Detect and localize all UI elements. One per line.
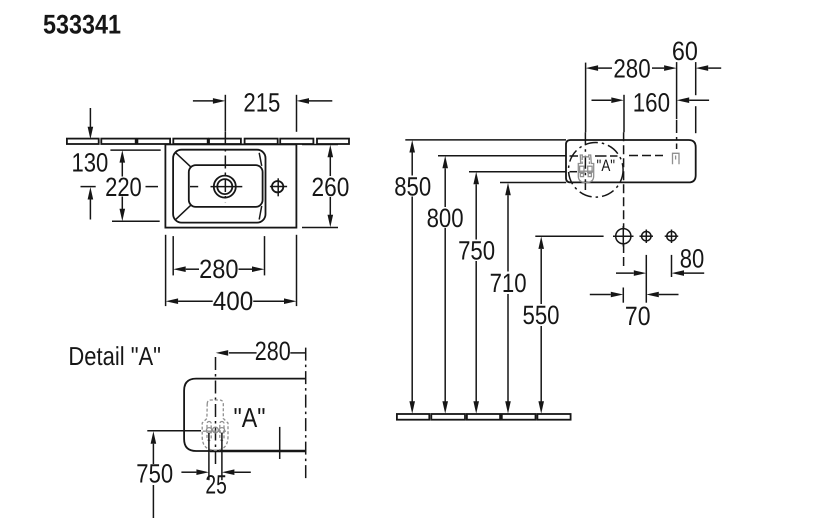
corner diagonal TL <box>175 152 192 168</box>
svg-text:750: 750 <box>136 459 173 489</box>
dim 160 <box>592 99 612 101</box>
faucet hole outer circle <box>214 176 236 198</box>
svg-text:25: 25 <box>205 469 226 499</box>
dim 215 <box>296 95 298 132</box>
dim 60 <box>708 67 721 69</box>
dim 220 <box>110 149 160 151</box>
svg-text:"A": "A" <box>234 402 266 433</box>
ref line 550 <box>535 235 603 237</box>
dim 260 <box>302 144 338 146</box>
svg-text:280: 280 <box>255 336 291 366</box>
dim 130 arrows <box>89 108 91 130</box>
ref line 800 <box>438 155 566 157</box>
drain centerline right view <box>584 132 586 190</box>
basin horizontal centerline <box>570 155 579 157</box>
ext line B <box>623 95 625 133</box>
ext line A <box>585 63 587 133</box>
dim 280 right <box>598 67 612 69</box>
dim line 550 <box>538 236 544 249</box>
svg-text:850: 850 <box>394 171 431 201</box>
basin rim rounded rect <box>173 150 265 223</box>
750 ref dash inside basin <box>570 171 578 173</box>
svg-text:160: 160 <box>633 88 670 118</box>
svg-text:220: 220 <box>105 172 142 202</box>
svg-text:Detail "A": Detail "A" <box>68 341 161 371</box>
ref line 710 <box>500 182 566 184</box>
wall bracket (gray) <box>673 153 680 164</box>
detail bottom thick line <box>210 450 306 453</box>
basin bottom rounded rect <box>189 165 263 207</box>
svg-text:215: 215 <box>243 88 280 118</box>
basin outer rect (plan) <box>165 144 296 227</box>
detail basin outline <box>184 379 306 451</box>
dim 25 <box>208 461 210 480</box>
svg-text:80: 80 <box>680 243 705 273</box>
dim 280 detail <box>229 352 257 354</box>
svg-text:750: 750 <box>458 236 495 266</box>
dim line 710 <box>505 183 511 196</box>
corner diagonal TR <box>259 153 262 166</box>
dim 400 <box>165 235 167 306</box>
svg-text:280: 280 <box>613 54 650 84</box>
svg-text:280: 280 <box>199 254 238 284</box>
detail drain centerline dash-dot <box>215 357 217 467</box>
mounting holes <box>616 229 631 244</box>
svg-text:400: 400 <box>213 286 254 316</box>
dim 280 top view <box>172 236 174 275</box>
ref line 850 <box>405 139 566 141</box>
small hole crosshair <box>270 186 287 188</box>
corner diagonal BR <box>259 206 262 220</box>
ext line C <box>676 62 678 119</box>
detail basin centerline dash-dot <box>305 348 307 482</box>
bracket centerline <box>676 120 678 149</box>
svg-text:800: 800 <box>427 203 464 233</box>
detail bolt lines <box>208 433 210 461</box>
detail circle A <box>569 143 624 198</box>
drain fitting right view (gray) <box>578 155 594 183</box>
svg-text:130: 130 <box>72 147 109 177</box>
dim 750 detail <box>147 430 201 432</box>
svg-text:60: 60 <box>672 36 698 66</box>
ref line 750 <box>469 171 566 173</box>
detail cut tick <box>279 427 281 459</box>
svg-text:70: 70 <box>625 301 651 331</box>
dim 80 <box>616 272 634 274</box>
hole centerline dashed <box>623 132 625 228</box>
dim line 850 <box>409 140 415 153</box>
dim line 750 <box>473 172 479 185</box>
small hole circle <box>272 181 283 192</box>
hole ext lines <box>645 255 647 303</box>
floor hatch band <box>397 414 571 420</box>
dim line 800 <box>442 156 448 169</box>
svg-text:550: 550 <box>523 300 560 330</box>
corner diagonal BL <box>175 205 192 221</box>
faucet vertical centerline <box>224 95 226 132</box>
wall hatch band <box>67 139 349 144</box>
faucet horizontal centerline dashes <box>81 186 96 188</box>
svg-text:710: 710 <box>490 268 527 298</box>
detail drain fitting (gray dashed) <box>202 400 228 450</box>
svg-text:533341: 533341 <box>43 9 121 39</box>
faucet hole inner circle <box>217 179 232 194</box>
svg-text:"A": "A" <box>597 157 616 175</box>
basin front outline <box>566 140 696 182</box>
ext line D <box>695 62 697 95</box>
dim 70 <box>590 294 611 296</box>
svg-text:260: 260 <box>312 172 350 202</box>
